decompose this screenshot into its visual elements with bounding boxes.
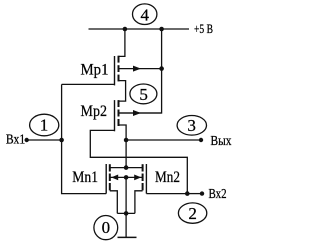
junction dot: source bar bbox=[124, 211, 129, 216]
junction dot: Mp1 bulk lead on substrate rail bbox=[159, 66, 164, 71]
transistor Mp1 channel dashes bbox=[118, 56, 120, 82]
node 3 ellipse bbox=[177, 116, 206, 136]
svg-text:Вх2: Вх2 bbox=[209, 186, 227, 201]
wire: +5V top rail bbox=[89, 28, 190, 30]
terminal dot Вх1 bbox=[25, 138, 29, 142]
wire: Вх1 drop to Mn1 gate bbox=[62, 140, 107, 194]
arrow: Mp1 bulk arrowhead (points right) bbox=[133, 66, 141, 72]
svg-text:5: 5 bbox=[139, 85, 148, 104]
node 4 ellipse bbox=[133, 4, 157, 25]
transistor Mp2 channel dashes bbox=[118, 100, 120, 126]
wire: Mp1 source riser bbox=[119, 29, 125, 56]
svg-text:Mp2: Mp2 bbox=[81, 103, 108, 120]
ground bar bbox=[118, 236, 137, 238]
wire: Вх1 riser to PMOS gate bbox=[61, 84, 63, 140]
svg-text:Вых: Вых bbox=[211, 133, 232, 148]
wire: Mp1 bulk lead bbox=[119, 68, 162, 70]
wire: Mp2 bulk lead bbox=[119, 112, 162, 114]
node 1 ellipse bbox=[30, 114, 59, 136]
arrow: Mn2 bulk arrowhead (points right into channel) bbox=[134, 175, 141, 181]
junction dot: rail to substrate rail bbox=[159, 27, 164, 32]
wire: output drop to NMOS drains bbox=[125, 140, 127, 168]
junction dot: output node bbox=[124, 138, 129, 143]
wire: Mp2 gate lead to Вх2 net bbox=[90, 130, 187, 193]
junction dot: drain bar bbox=[124, 165, 129, 170]
svg-text:4: 4 bbox=[140, 6, 149, 25]
wire: NMOS bulk line bbox=[110, 176, 143, 178]
wire: Mp1 gate lead bbox=[62, 83, 115, 85]
wire: NMOS source bar bbox=[117, 212, 135, 214]
transistor Mp1 gate bar bbox=[114, 56, 116, 85]
wire: Mn1 source lead bbox=[110, 191, 118, 214]
wire: input Вх1 bbox=[27, 139, 62, 141]
transistor Mn1 gate bar bbox=[105, 164, 107, 194]
transistor Mn1 channel dashes bbox=[109, 164, 111, 190]
svg-text:1: 1 bbox=[40, 116, 49, 135]
node 5 ellipse bbox=[130, 84, 157, 104]
wire: Вх2 input bbox=[187, 193, 202, 195]
wire: substrate rail (bulk of Mp1/Mp2 to +5V) bbox=[119, 29, 162, 113]
terminal dot Вх2 bbox=[200, 191, 204, 195]
wire: Mp1 drain to Mp2 source (node 5 link) bbox=[119, 81, 126, 102]
terminal dot Вых bbox=[199, 138, 203, 142]
svg-text:+5 В: +5 В bbox=[194, 22, 213, 36]
svg-text:0: 0 bbox=[102, 218, 111, 237]
svg-text:3: 3 bbox=[187, 116, 196, 135]
svg-text:Вх1: Вх1 bbox=[6, 132, 25, 147]
arrow: Mp2 bulk arrowhead (points right) bbox=[133, 110, 141, 116]
svg-text:Mn2: Mn2 bbox=[155, 169, 180, 186]
wire: bulk center drop to source bar bbox=[125, 177, 127, 213]
node 2 ellipse bbox=[178, 203, 206, 223]
wire: NMOS drain bar bbox=[110, 167, 143, 169]
svg-text:Mn1: Mn1 bbox=[72, 169, 98, 186]
wire: Mn2 source lead bbox=[135, 191, 143, 214]
node 0 ellipse bbox=[94, 216, 118, 240]
wire: ground stem bbox=[125, 213, 127, 237]
svg-text:Mp1: Mp1 bbox=[81, 62, 109, 79]
junction dot: Вх1 node bbox=[59, 138, 64, 143]
arrow: Mn1 bulk arrowhead (points left into channel) bbox=[111, 175, 118, 181]
junction dot: rail to Mp1 source riser bbox=[123, 27, 128, 32]
svg-text:2: 2 bbox=[188, 204, 197, 223]
junction dot: Вх2 node bbox=[185, 191, 190, 196]
wire: Mp2 drain to output node bbox=[119, 125, 127, 140]
wire: Mn2 gate lead bbox=[146, 193, 187, 195]
wire: output Вых bbox=[126, 139, 201, 141]
transistor Mn2 channel dashes bbox=[142, 164, 144, 190]
junction dot: bulk center bbox=[124, 175, 129, 180]
transistor Mn2 gate bar bbox=[145, 164, 147, 194]
transistor Mp2 gate bar bbox=[114, 100, 116, 131]
